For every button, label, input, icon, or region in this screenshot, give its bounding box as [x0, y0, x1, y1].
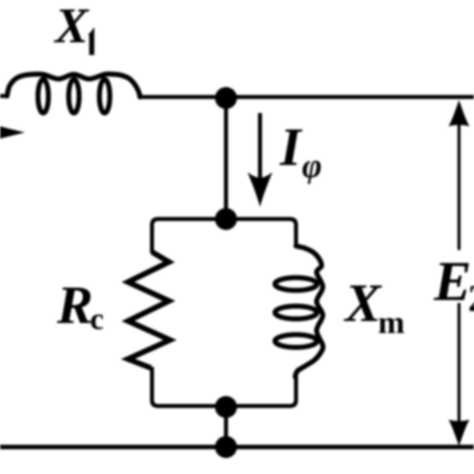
label Rc: [56, 275, 104, 336]
svg-text:E: E: [433, 251, 471, 313]
arrow E2 voltage dimension: [449, 100, 470, 446]
label I_phi: [279, 117, 322, 185]
svg-text:φ: φ: [302, 148, 322, 185]
svg-text:m: m: [378, 304, 405, 340]
wire: shunt bottom rail: [152, 367, 296, 406]
label Xm: [343, 273, 405, 340]
node: shunt bottom junction: [215, 396, 237, 418]
inductor X1: [7, 74, 140, 113]
node: bottom bus junction: [215, 436, 237, 458]
arrow I_phi: [248, 113, 273, 207]
wire: top bus left entry: [0, 94, 8, 98]
wire: top bus from inductor to right edge: [138, 95, 474, 99]
wire: vertical from top node to shunt node: [224, 97, 228, 219]
inductor Xm: [275, 246, 323, 377]
node: top junction: [215, 87, 237, 109]
resistor Rc: [128, 252, 170, 368]
svg-text:R: R: [56, 275, 93, 335]
svg-text:c: c: [90, 301, 104, 336]
label E2: [433, 251, 474, 320]
arrow: input current at left edge: [0, 126, 25, 138]
svg-text:2: 2: [468, 278, 474, 320]
wire: vertical from shunt bottom to bottom bus: [224, 406, 228, 448]
wire: bottom bus: [0, 445, 474, 450]
svg-text:X: X: [343, 273, 383, 333]
svg-text:X: X: [53, 0, 90, 53]
wire: shunt top rail: [152, 219, 296, 253]
label X1: [53, 0, 94, 55]
svg-text:I: I: [279, 117, 303, 177]
node: shunt top junction: [215, 208, 237, 230]
